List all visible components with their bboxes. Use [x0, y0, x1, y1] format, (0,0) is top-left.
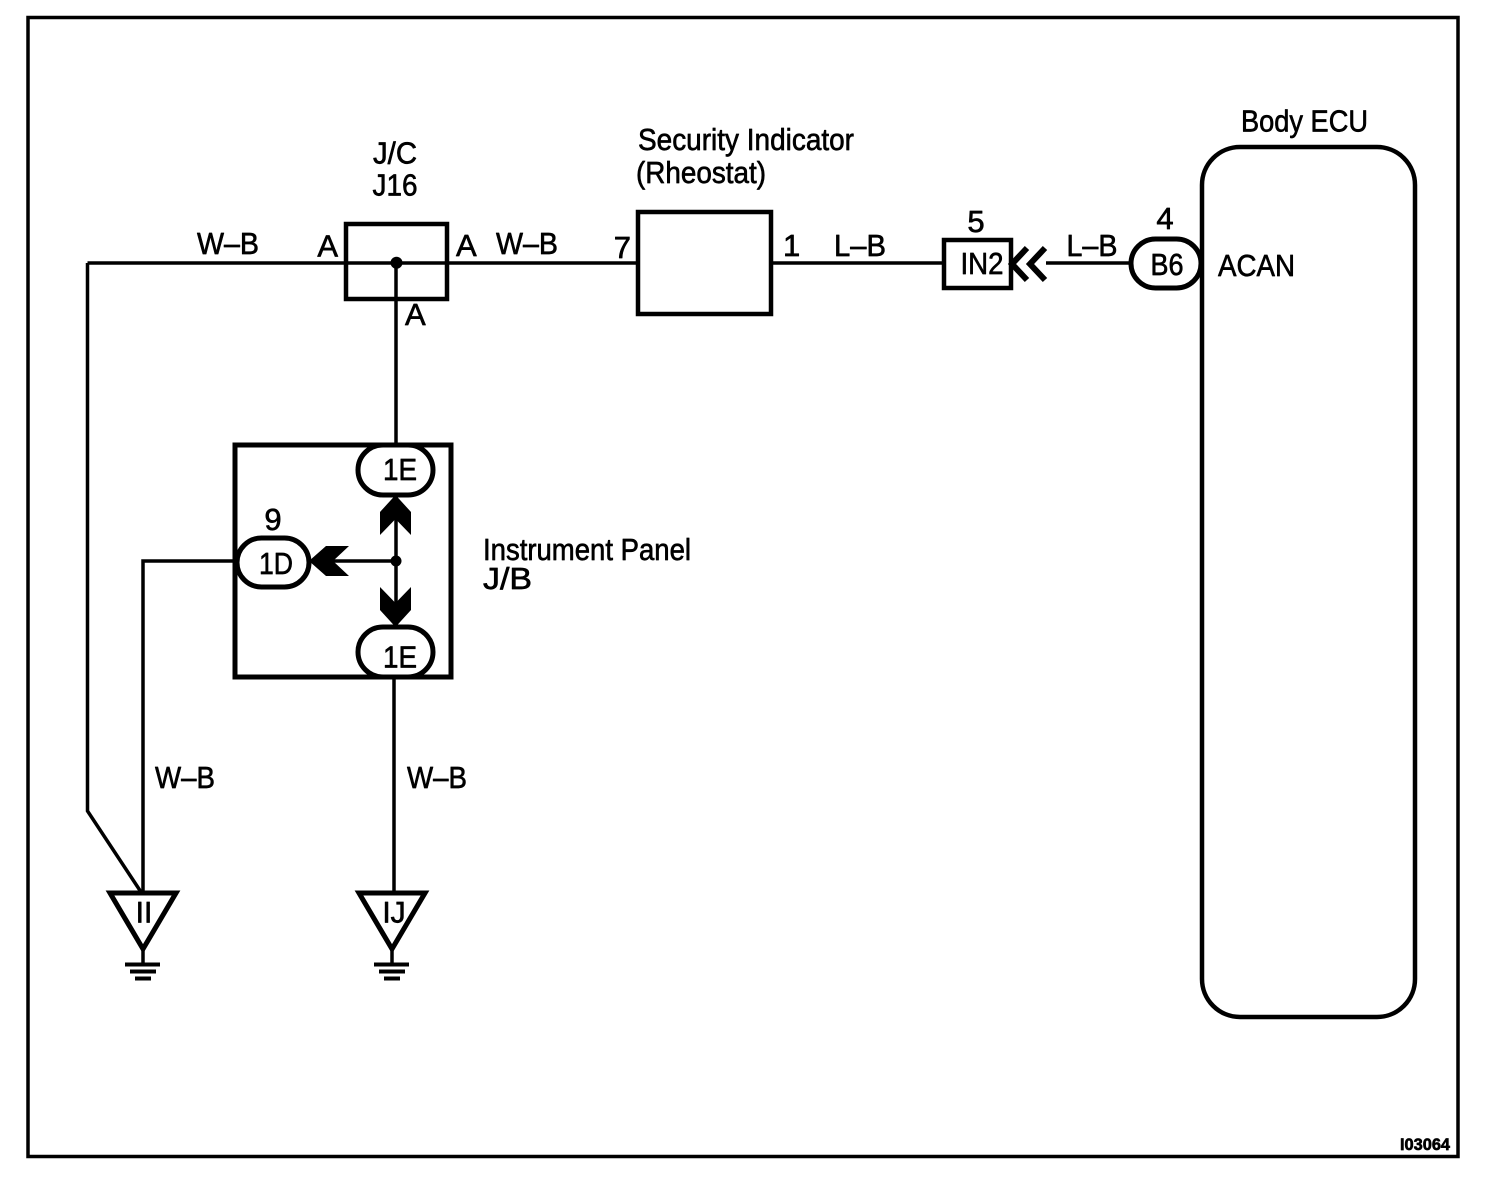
- node junction dot in J/B: [391, 556, 402, 567]
- wire through J/C box: [344, 261, 449, 265]
- connector 1E top oval: [358, 445, 433, 495]
- svg-text:A: A: [456, 228, 477, 263]
- wire 1E bottom down to ground IJ: [392, 676, 396, 893]
- wire left vertical down: [88, 263, 142, 892]
- svg-text:IN2: IN2: [961, 246, 1004, 281]
- svg-text:I03064: I03064: [1400, 1135, 1451, 1154]
- Body ECU block: [1202, 147, 1415, 1017]
- arrow up chevron: [380, 495, 411, 535]
- connector B6 oval: [1131, 239, 1201, 288]
- svg-text:J16: J16: [373, 168, 418, 203]
- chevron arrows at IN2: [1012, 248, 1027, 280]
- svg-text:Body ECU: Body ECU: [1241, 104, 1368, 139]
- svg-text:II: II: [136, 897, 153, 930]
- wire 1D left and down to ground II: [143, 561, 236, 893]
- svg-text:1: 1: [783, 228, 800, 263]
- svg-text:W–B: W–B: [496, 226, 558, 261]
- ground IJ triangle: [359, 893, 425, 949]
- svg-text:A: A: [405, 297, 426, 332]
- wire inside J/B vertical: [394, 494, 398, 629]
- svg-text:1D: 1D: [259, 546, 293, 581]
- svg-text:1E: 1E: [383, 640, 417, 675]
- Instrument Panel J/B box: [235, 445, 451, 677]
- svg-text:W–B: W–B: [407, 760, 467, 795]
- svg-text:5: 5: [967, 204, 984, 239]
- ground II triangle: [110, 893, 176, 949]
- wire W-B left horizontal: [88, 261, 345, 265]
- svg-text:W–B: W–B: [197, 226, 259, 261]
- wire J/C down to 1E: [394, 263, 398, 447]
- wire Security Indicator to IN2: [771, 261, 944, 265]
- wire J/C to Security Indicator: [449, 261, 638, 265]
- J/C J16 junction box: [346, 224, 447, 299]
- connector 1E bottom oval: [358, 627, 433, 677]
- connector 1D oval: [237, 538, 309, 587]
- node junction dot in J/C: [391, 257, 403, 269]
- svg-text:L–B: L–B: [1067, 228, 1118, 263]
- svg-text:1E: 1E: [383, 452, 417, 487]
- ground II stem and bars: [141, 949, 145, 964]
- wire 1D to junction: [330, 559, 396, 563]
- svg-text:J/B: J/B: [483, 561, 532, 596]
- wire IN2 chevrons to B6: [1046, 261, 1130, 265]
- connector IN2: [944, 240, 1011, 288]
- svg-text:ACAN: ACAN: [1218, 248, 1295, 283]
- svg-text:J/C: J/C: [373, 136, 417, 171]
- svg-text:(Rheostat): (Rheostat): [636, 155, 766, 190]
- svg-text:W–B: W–B: [155, 760, 215, 795]
- svg-text:B6: B6: [1151, 247, 1184, 282]
- Security Indicator (Rheostat) box: [638, 212, 771, 314]
- svg-text:Security Indicator: Security Indicator: [638, 122, 854, 157]
- svg-text:4: 4: [1156, 201, 1173, 236]
- svg-text:L–B: L–B: [834, 228, 886, 263]
- svg-text:7: 7: [614, 230, 631, 265]
- svg-text:IJ: IJ: [382, 897, 405, 930]
- arrow down chevron: [380, 587, 411, 627]
- svg-text:A: A: [317, 229, 338, 264]
- ground IJ stem and bars: [390, 949, 394, 964]
- arrow left chevron: [309, 546, 349, 576]
- svg-text:9: 9: [264, 502, 281, 537]
